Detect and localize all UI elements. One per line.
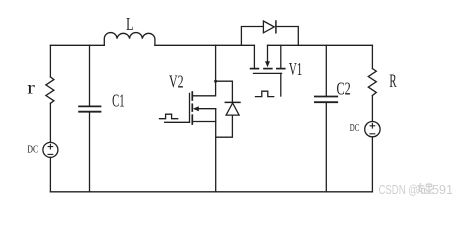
- wire left vertical upper: [49, 45, 51, 77]
- transistor V1 gate bar: [254, 72, 282, 74]
- transistor V1 arrowhead: [265, 61, 270, 67]
- transistor V1 channel dashes: [251, 68, 285, 70]
- capacitor C1 lower lead: [89, 112, 91, 192]
- wire top right (V1 source to R): [268, 44, 373, 46]
- resistor r: [46, 77, 54, 103]
- transistor V2 body arrow lead: [198, 108, 216, 110]
- transistor V2 gate lead: [165, 121, 190, 123]
- wire V1 drain stub: [253, 45, 255, 68]
- wire bypass right leg: [276, 27, 298, 46]
- svg-text:L: L: [126, 14, 133, 34]
- transistor V1 source stub: [280, 45, 282, 68]
- transistor V2 source lead: [192, 121, 215, 123]
- junction dot drain/diode: [214, 80, 217, 83]
- transistor V2 channel dashes: [191, 92, 193, 124]
- wire source to bottom right: [371, 137, 373, 192]
- wire diode D2 anode to source: [216, 115, 233, 137]
- DC source E2 (right): [365, 122, 380, 137]
- wire source to bottom: [49, 157, 51, 191]
- watermark glyph ru: [418, 184, 425, 194]
- watermark CSDN: [379, 182, 454, 197]
- wire r to source: [49, 103, 51, 142]
- resistor R: [368, 69, 376, 96]
- DC source E1 (left): [43, 142, 58, 157]
- svg-text:CSDN @: CSDN @: [379, 182, 419, 197]
- capacitor C1 upper lead: [89, 45, 91, 106]
- svg-text:C2: C2: [337, 78, 351, 98]
- wire bypass left leg: [241, 27, 263, 46]
- pulse annotation V2 gate: [160, 114, 178, 119]
- pulse annotation V1 gate: [256, 91, 274, 96]
- svg-text:r: r: [27, 78, 35, 98]
- svg-text:591: 591: [432, 182, 453, 197]
- watermark glyph guo: [425, 184, 433, 194]
- svg-text:R: R: [389, 71, 396, 92]
- transistor V2 gate bar: [189, 93, 191, 122]
- transistor V1 body arrow lead: [267, 45, 269, 62]
- capacitor C2: [315, 97, 337, 103]
- wire top-left horizontal (node in+): [50, 44, 104, 46]
- transistor V2 arrowhead: [193, 106, 199, 111]
- wire top middle (L to V1 drain): [155, 44, 255, 46]
- diode D2 (V2 body diode): [225, 102, 240, 115]
- transistor V1 gate lead: [280, 73, 282, 96]
- svg-text:V1: V1: [289, 59, 302, 79]
- wire R to source: [371, 96, 373, 122]
- diode D1 (bypass over V1): [263, 21, 276, 33]
- svg-text:C1: C1: [112, 91, 125, 111]
- capacitor C2 upper lead: [325, 45, 327, 96]
- capacitor C1: [79, 106, 100, 111]
- wire jog drain to diode D2 cathode: [216, 81, 233, 102]
- capacitor C2 lower lead: [325, 103, 327, 192]
- inductor L: [104, 33, 155, 46]
- svg-text:DC: DC: [350, 123, 360, 134]
- wire right vertical upper: [371, 45, 373, 68]
- svg-text:DC: DC: [27, 145, 38, 156]
- transistor V2 drain lead: [192, 45, 215, 96]
- svg-text:V2: V2: [169, 71, 184, 91]
- wire V2 source down to bottom rail: [215, 109, 217, 192]
- wire bottom rail: [50, 191, 372, 193]
